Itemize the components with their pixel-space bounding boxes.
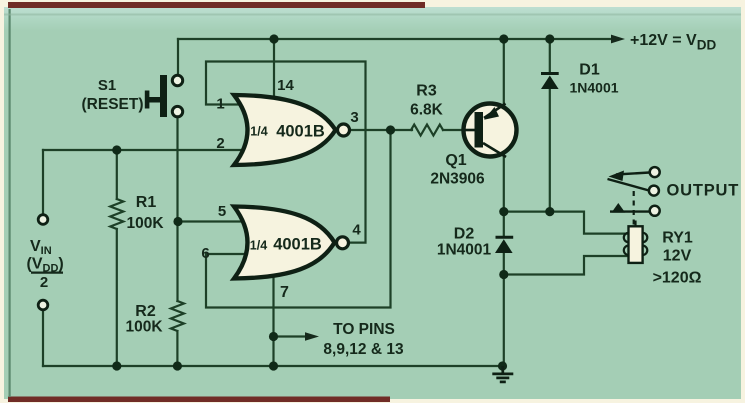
svg-text:Q1: Q1 xyxy=(445,152,466,169)
junction rail pin7 xyxy=(269,361,278,370)
wire Q1 emitter to rail xyxy=(503,39,505,106)
svg-text:R1: R1 xyxy=(136,194,157,211)
svg-text:6.8K: 6.8K xyxy=(410,102,444,119)
junction rail R2 xyxy=(173,361,182,370)
switch S1 xyxy=(145,75,183,117)
svg-text:4001B: 4001B xyxy=(273,236,322,254)
svg-text:14: 14 xyxy=(277,77,294,94)
junction top rail emitter xyxy=(499,34,508,43)
NOR gate U1a 1/4 4001B xyxy=(234,95,350,165)
svg-text:1/4: 1/4 xyxy=(250,239,267,253)
transistor Q1 xyxy=(464,104,517,158)
ground xyxy=(492,366,513,382)
svg-text:R3: R3 xyxy=(416,83,437,100)
svg-text:(RESET): (RESET) xyxy=(82,96,144,113)
svg-text:R2: R2 xyxy=(135,303,156,320)
wire D2 vertical xyxy=(503,212,505,275)
svg-text:S1: S1 xyxy=(98,77,116,94)
wire S1 bottom to reset column xyxy=(176,117,178,222)
wire feedback out3 to in6 xyxy=(206,130,391,308)
svg-text:6: 6 xyxy=(201,245,209,262)
NOR gate U1b 1/4 4001B xyxy=(234,207,349,279)
wire R2 bottom to ground rail xyxy=(176,331,178,366)
svg-text:1N4001: 1N4001 xyxy=(569,80,618,96)
svg-text:2N3906: 2N3906 xyxy=(430,171,485,188)
wire R1 branch top xyxy=(116,150,118,199)
svg-text:100K: 100K xyxy=(126,215,164,232)
svg-text:100K: 100K xyxy=(125,319,163,336)
svg-text:>120Ω: >120Ω xyxy=(653,270,702,287)
svg-text:7: 7 xyxy=(280,284,289,301)
wire bottom ground rail xyxy=(43,365,503,367)
svg-text:3: 3 xyxy=(350,109,358,126)
svg-text:1N4001: 1N4001 xyxy=(437,242,492,259)
svg-text:1/4: 1/4 xyxy=(250,125,267,139)
wire feedback out4 to in1 xyxy=(206,62,366,243)
arrow to-pins head xyxy=(305,332,319,341)
resistor R3 zigzag xyxy=(411,125,443,136)
junction top rail pin14 xyxy=(269,34,278,43)
svg-text:5: 5 xyxy=(218,203,226,220)
wire input 2 horizontal VIN to gate xyxy=(43,149,248,151)
junction R1 input2 xyxy=(112,145,121,154)
svg-text:1: 1 xyxy=(216,96,224,113)
svg-text:4001B: 4001B xyxy=(276,123,325,141)
svg-text:12V: 12V xyxy=(663,248,692,265)
wire input 5 from junction to gate xyxy=(178,220,248,222)
wire reset column through R2 top xyxy=(176,222,178,302)
svg-text:RY1: RY1 xyxy=(662,230,693,247)
arrow +12V rail head xyxy=(611,35,625,44)
wire pin 14 drop from rail to gate U1a xyxy=(273,39,275,100)
junction rail ground xyxy=(498,361,507,370)
wire VIN lower terminal to bottom rail xyxy=(42,310,44,366)
wire D2 node to ground rail xyxy=(503,275,505,367)
resistor R1 zigzag xyxy=(110,199,123,229)
wire D2 node to relay bottom xyxy=(504,256,629,275)
relay contacts output xyxy=(608,167,660,226)
wire pin 7 drop xyxy=(272,278,274,366)
diode D1 xyxy=(541,74,559,90)
terminal VIN minus xyxy=(38,300,48,310)
svg-text:2: 2 xyxy=(40,274,48,291)
wire D1 branch xyxy=(549,39,551,212)
wire R1 bottom to ground rail xyxy=(116,229,118,366)
svg-text:8,9,12 & 13: 8,9,12 & 13 xyxy=(323,341,404,358)
junction D1 bottom xyxy=(545,207,554,216)
junction D2 bottom xyxy=(499,270,508,279)
svg-text:D2: D2 xyxy=(454,226,475,243)
wire +12V top rail xyxy=(178,38,612,40)
wire to-pins arrow shaft xyxy=(274,335,309,337)
wire S1 upper drop from rail xyxy=(177,39,179,75)
relay coil RY1 xyxy=(624,221,648,263)
junction top rail D1 xyxy=(545,34,554,43)
junction rail R1 xyxy=(112,361,121,370)
wire output 3 to R3 xyxy=(350,129,412,131)
diode D2 xyxy=(495,237,513,253)
junction collector D1 xyxy=(499,207,508,216)
wire Q1 collector down xyxy=(503,155,505,212)
junction node output3 xyxy=(386,125,395,134)
resistor R2 zigzag xyxy=(171,301,184,331)
svg-text:2: 2 xyxy=(216,135,224,152)
svg-text:D1: D1 xyxy=(579,62,600,79)
junction to-pins xyxy=(269,332,278,341)
svg-text:4: 4 xyxy=(352,222,361,239)
wire R3 to Q1 base xyxy=(443,129,465,131)
junction input5 reset column xyxy=(173,217,182,226)
wire VIN upper terminal drop xyxy=(42,150,44,215)
svg-text:OUTPUT: OUTPUT xyxy=(667,182,740,200)
wire collector node to relay top xyxy=(504,212,629,234)
terminal VIN plus xyxy=(38,215,48,225)
svg-text:TO PINS: TO PINS xyxy=(333,321,395,338)
